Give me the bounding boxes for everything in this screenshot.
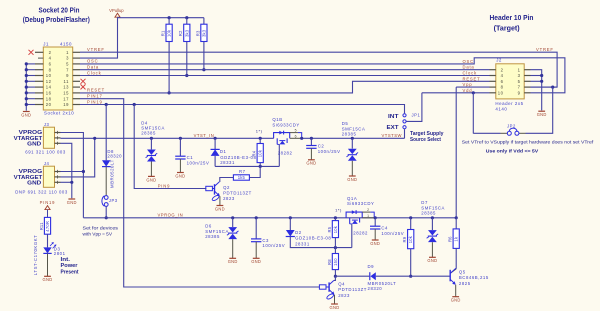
wire Vdd xyxy=(422,92,490,94)
ground GND C1 xyxy=(177,172,184,174)
wire C3 stem xyxy=(255,218,257,239)
resistor R2 3k3 xyxy=(186,18,188,25)
wire R3 to Data xyxy=(203,42,205,70)
wire J2 ground pins 1 3 5 xyxy=(531,70,542,111)
svg-text:J1: J1 xyxy=(43,41,49,46)
wire Q1B gate drop xyxy=(278,144,280,166)
svg-text:Data: Data xyxy=(87,65,99,70)
junction PIN19-PIN9 xyxy=(133,103,136,106)
wire GND J3.3 J4.3 xyxy=(61,143,72,198)
junction PIN19-D8 xyxy=(105,103,108,106)
svg-text:GND: GND xyxy=(215,206,225,211)
svg-text:11: 11 xyxy=(64,79,70,84)
svg-text:19: 19 xyxy=(63,102,69,107)
connector J1 Socket 2x10 xyxy=(43,47,72,110)
svg-text:J2: J2 xyxy=(496,58,502,63)
svg-text:Header 10 Pin: Header 10 Pin xyxy=(490,15,534,22)
svg-text:D1: D1 xyxy=(220,149,227,154)
wire PIN9 xyxy=(134,105,206,189)
wire RESET bus xyxy=(80,81,490,93)
svg-text:470R: 470R xyxy=(45,221,50,232)
no-connect X pin11 xyxy=(81,79,86,84)
junction D2-rail xyxy=(289,216,292,219)
capacitor C2 100n/25V xyxy=(306,145,316,147)
svg-text:8: 8 xyxy=(49,67,52,72)
junction Q1B drain xyxy=(300,137,303,140)
svg-text:GND: GND xyxy=(67,200,77,205)
svg-text:100n/25V: 100n/25V xyxy=(187,161,210,166)
wire D8 to JP3 xyxy=(105,167,107,196)
junction R9-rail xyxy=(409,216,412,219)
resistor R6 1k xyxy=(455,218,457,229)
svg-text:GND: GND xyxy=(451,298,461,303)
junction R2-Clock xyxy=(185,74,188,77)
svg-text:10: 10 xyxy=(498,90,504,95)
svg-text:1k5: 1k5 xyxy=(238,175,246,180)
svg-text:28385: 28385 xyxy=(421,211,436,216)
svg-text:5: 5 xyxy=(295,128,297,132)
svg-text:28385: 28385 xyxy=(141,130,156,135)
svg-text:R2: R2 xyxy=(178,30,183,36)
wire VTST_IN rail xyxy=(61,137,274,139)
svg-text:5: 5 xyxy=(66,62,69,67)
svg-text:OSC: OSC xyxy=(463,59,474,64)
svg-text:Socket 2x10: Socket 2x10 xyxy=(44,111,74,116)
svg-text:Si6933CDY: Si6933CDY xyxy=(347,201,374,206)
svg-text:28385: 28385 xyxy=(342,132,357,137)
svg-text:28331: 28331 xyxy=(295,241,310,246)
svg-text:9: 9 xyxy=(518,90,521,95)
ground GND D6 xyxy=(229,257,236,259)
svg-text:28282: 28282 xyxy=(278,150,293,155)
ground GND D4 xyxy=(148,175,155,177)
ground GND D7 xyxy=(429,256,436,258)
svg-text:100n/25V: 100n/25V xyxy=(318,149,341,154)
svg-text:JP2: JP2 xyxy=(507,124,516,129)
svg-text:GND: GND xyxy=(228,259,238,264)
svg-text:Q4: Q4 xyxy=(338,282,345,287)
svg-text:2: 2 xyxy=(501,67,504,72)
svg-text:28320: 28320 xyxy=(368,286,383,291)
svg-text:3k3: 3k3 xyxy=(184,29,189,37)
svg-text:C1: C1 xyxy=(187,155,194,160)
resistor R8 150 xyxy=(334,248,336,254)
junction D6-rail xyxy=(231,216,234,219)
wire gate node to R7 xyxy=(249,166,260,177)
svg-text:2801: 2801 xyxy=(54,251,66,256)
wire Q4 collector xyxy=(334,276,336,280)
svg-text:1k: 1k xyxy=(454,236,459,242)
junction D7-rail xyxy=(431,216,434,219)
svg-text:7: 7 xyxy=(518,85,521,90)
Q1B drain stubs pins 5 6 xyxy=(290,132,298,134)
wire JP1 middle to Vdd xyxy=(406,93,422,122)
svg-text:PDTD113ZT: PDTD113ZT xyxy=(338,287,367,292)
led D3 LTST-C170KGKT xyxy=(43,247,51,253)
suppressor D7 SMF15CA xyxy=(428,230,437,235)
wire J2 pin7 VTREF xyxy=(531,86,558,88)
junction J2 pin3 gnd xyxy=(540,74,543,77)
svg-text:R3: R3 xyxy=(195,30,200,36)
wire D1 stem xyxy=(214,138,216,149)
svg-text:R8: R8 xyxy=(327,259,332,265)
connector J2 Header 2x5 xyxy=(496,64,524,99)
svg-text:GND: GND xyxy=(306,161,316,166)
svg-text:GND: GND xyxy=(330,305,340,310)
capacitor C3 100n/25V xyxy=(251,238,261,240)
junction VTREF-JP2 xyxy=(551,86,554,89)
wire D9 to Q5 base xyxy=(376,275,450,277)
svg-text:Source Select: Source Select xyxy=(410,137,441,143)
wire VPROG_IN rail xyxy=(83,217,456,219)
J3 pin stubs xyxy=(55,132,61,134)
junctions J1 ground bus xyxy=(25,62,28,65)
svg-text:Vpp: Vpp xyxy=(463,82,473,87)
svg-text:18: 18 xyxy=(46,96,52,101)
capacitor C1 100n/25V xyxy=(175,155,185,157)
wire Data bus xyxy=(80,69,490,71)
svg-text:J3: J3 xyxy=(44,122,50,127)
wire VPullup riser to pin3 xyxy=(80,17,118,58)
svg-text:3: 3 xyxy=(66,56,69,61)
wire Vpp riser down to VPROG rail xyxy=(455,87,457,218)
svg-text:R9: R9 xyxy=(402,236,407,242)
wire C1 stem xyxy=(179,138,181,156)
ground GND D3 xyxy=(44,275,51,277)
wire C2 stem xyxy=(310,138,312,145)
wire VPROG from J3.1 J4.1 xyxy=(61,133,84,218)
junction R9 base node xyxy=(409,275,412,278)
svg-text:2: 2 xyxy=(49,50,52,55)
svg-text:GND: GND xyxy=(27,142,41,148)
wire D6 to gnd xyxy=(232,239,234,258)
svg-text:Q2: Q2 xyxy=(223,185,230,190)
suppressor D6 SMF15CA xyxy=(228,227,237,232)
wire OSC bus xyxy=(80,58,565,93)
svg-text:Present: Present xyxy=(61,269,79,275)
junction VPullup-R2 xyxy=(185,16,188,19)
svg-text:GND: GND xyxy=(175,173,185,178)
svg-text:Vdd: Vdd xyxy=(463,88,473,93)
junction D4-rail xyxy=(150,137,153,140)
ground GND Q5 xyxy=(452,296,459,298)
junction R5 R8 gate node A xyxy=(334,246,337,249)
svg-text:BC846B,215: BC846B,215 xyxy=(459,275,489,280)
svg-text:EXT: EXT xyxy=(387,125,400,131)
wire Clock bus xyxy=(80,75,490,77)
svg-text:LTST-C170KGKT: LTST-C170KGKT xyxy=(33,235,38,276)
wire PIN19 to D8 xyxy=(105,105,107,161)
svg-text:15: 15 xyxy=(63,91,69,96)
wire C2 to gnd xyxy=(310,148,312,160)
svg-text:GND: GND xyxy=(427,258,437,263)
wire R7 to Q2 collector xyxy=(220,178,234,183)
svg-text:Int.: Int. xyxy=(61,257,71,263)
wire D1 to gate node B xyxy=(214,156,216,167)
junction VPROG J4.1 xyxy=(82,170,85,173)
svg-text:1: 1 xyxy=(66,50,69,55)
svg-text:VTREF: VTREF xyxy=(87,47,105,52)
svg-text:13: 13 xyxy=(63,85,69,90)
suppressor D4 SMF15CA xyxy=(147,150,156,155)
svg-text:Q5: Q5 xyxy=(459,270,466,275)
svg-text:J4: J4 xyxy=(44,161,50,166)
junction R4 gate node xyxy=(259,165,262,168)
svg-text:7: 7 xyxy=(66,67,69,72)
resistor R3 3k3 xyxy=(203,18,205,25)
svg-text:Set for devices: Set for devices xyxy=(83,226,119,231)
J2 right pin stubs xyxy=(524,69,530,71)
wire Vdd drop to JP2 xyxy=(472,93,474,134)
svg-text:16: 16 xyxy=(46,91,52,96)
no-connect X pin13 xyxy=(81,84,86,89)
zener D2 GDZ10B xyxy=(286,230,295,237)
wire R1 to RESET xyxy=(168,42,170,93)
svg-text:5: 5 xyxy=(518,79,521,84)
svg-text:1*): 1*) xyxy=(256,129,263,134)
wire D5 stem xyxy=(351,138,353,148)
svg-text:28331: 28331 xyxy=(220,160,235,165)
svg-text:DNP 691 322 110 003: DNP 691 322 110 003 xyxy=(15,189,68,194)
wire D4 stem xyxy=(150,138,152,149)
svg-text:RESET: RESET xyxy=(87,88,105,93)
svg-text:10k: 10k xyxy=(408,235,413,243)
svg-text:150: 150 xyxy=(333,258,338,266)
svg-text:R6: R6 xyxy=(448,236,453,242)
wire D6 stem xyxy=(232,218,234,227)
svg-text:VTSTSW: VTSTSW xyxy=(382,133,402,138)
svg-text:10k: 10k xyxy=(258,149,263,157)
svg-text:D9: D9 xyxy=(368,264,375,269)
svg-text:VPullup: VPullup xyxy=(109,8,124,13)
svg-text:GND: GND xyxy=(43,277,53,282)
suppressor D5 SMF15CA xyxy=(348,149,357,154)
wire D7 stem xyxy=(431,218,433,230)
svg-text:D2: D2 xyxy=(295,230,302,235)
junction R4-rail xyxy=(259,137,262,140)
svg-text:4150: 4150 xyxy=(60,41,72,46)
svg-text:10k: 10k xyxy=(333,225,338,233)
wire D2 stem xyxy=(289,218,291,230)
svg-text:VPROG_IN: VPROG_IN xyxy=(158,213,184,218)
svg-text:3: 3 xyxy=(518,73,521,78)
ground GND C2 xyxy=(308,159,315,161)
svg-text:6: 6 xyxy=(295,134,297,138)
resistor R11 470R xyxy=(44,217,50,234)
svg-text:Header 2x5: Header 2x5 xyxy=(495,101,523,106)
wire D5 to gnd xyxy=(351,161,353,176)
svg-text:R5: R5 xyxy=(327,226,332,232)
J1 right pin stubs xyxy=(73,51,80,53)
wire Vpp xyxy=(456,86,489,88)
svg-text:1: 1 xyxy=(518,67,521,72)
svg-text:2823: 2823 xyxy=(223,196,235,201)
svg-text:VTREF: VTREF xyxy=(536,47,554,52)
wire J1 pin4 stub xyxy=(38,57,43,59)
wire JP1 EXT to VTSTSW xyxy=(404,129,406,138)
resistor R5 10k xyxy=(334,218,336,221)
wire JP2 right xyxy=(519,132,526,134)
svg-text:R11: R11 xyxy=(39,222,44,230)
wire VTARGET from J4.2 xyxy=(61,138,95,177)
resistor R9 10k xyxy=(410,218,412,230)
wire J1 left ground bus xyxy=(25,64,27,111)
svg-text:with Vpp = 5V: with Vpp = 5V xyxy=(83,232,113,237)
wire R2 to Clock xyxy=(186,42,188,76)
wire Q1A gate drop xyxy=(351,224,353,248)
wire D2 to gate node A xyxy=(290,237,352,248)
svg-text:VTST_IN: VTST_IN xyxy=(194,133,215,138)
diode D8 MBR0520LT xyxy=(102,160,110,166)
wire Q4 emitter to gnd xyxy=(334,295,336,304)
wire Q4 node to D9 xyxy=(335,275,369,277)
zener D1 GDZ10B xyxy=(211,149,220,156)
junction R3-Data xyxy=(202,68,205,71)
svg-text:28320: 28320 xyxy=(107,154,122,159)
wire R11 to D3 xyxy=(47,234,49,247)
svg-text:(Target): (Target) xyxy=(494,26,520,33)
junction VTARGET rail xyxy=(93,137,96,140)
wire R6 to Q5 collector xyxy=(455,248,457,268)
svg-text:10k: 10k xyxy=(167,29,172,37)
wire PIN19 bus xyxy=(80,105,405,114)
svg-text:OSC: OSC xyxy=(87,59,98,64)
svg-text:28385: 28385 xyxy=(205,234,220,239)
wire Q2 emitter to gnd xyxy=(219,196,221,205)
ground GND D5 xyxy=(349,175,356,177)
wire gate node B xyxy=(215,165,279,167)
svg-text:GND: GND xyxy=(251,259,261,264)
svg-text:R1: R1 xyxy=(161,30,166,36)
junction C2-rail xyxy=(310,137,313,140)
svg-text:4: 4 xyxy=(49,56,52,61)
svg-text:12: 12 xyxy=(46,79,52,84)
svg-text:GND: GND xyxy=(537,112,547,117)
svg-text:R4: R4 xyxy=(252,150,257,156)
no-connect X pin2 xyxy=(29,50,34,55)
transistor Q5 BC846B xyxy=(449,275,451,277)
wire Q5 emitter to gnd xyxy=(455,285,457,297)
wire D4 to gnd xyxy=(150,162,152,177)
ground GND Q4 xyxy=(331,303,338,305)
wire C3 to gnd xyxy=(255,242,257,259)
svg-text:GND: GND xyxy=(27,181,41,187)
connector J3 xyxy=(43,127,54,148)
wire C1 to gnd xyxy=(179,159,181,173)
svg-text:C3: C3 xyxy=(262,238,269,243)
svg-text:9: 9 xyxy=(66,73,69,78)
J2 left pin stubs xyxy=(490,69,496,71)
svg-text:28282: 28282 xyxy=(353,231,368,236)
supply arrow PIN19 xyxy=(45,206,50,210)
ground GND J1 bus xyxy=(23,111,30,113)
svg-text:20: 20 xyxy=(46,102,52,107)
wire C4 to gnd xyxy=(374,229,376,240)
svg-text:GND: GND xyxy=(21,112,31,117)
svg-text:6: 6 xyxy=(49,62,52,67)
svg-text:PIN19: PIN19 xyxy=(87,99,103,104)
svg-text:691 321 100 003: 691 321 100 003 xyxy=(25,150,66,155)
resistor R4 10k gate pullup xyxy=(259,138,261,143)
junction C1-rail xyxy=(179,137,182,140)
svg-text:3k3: 3k3 xyxy=(201,29,206,37)
svg-text:Si6933CDY: Si6933CDY xyxy=(272,122,299,127)
jumper JP3 xyxy=(104,196,108,200)
svg-text:INT: INT xyxy=(388,114,399,120)
svg-text:Set VTref to VSupply if target: Set VTref to VSupply if target hardware … xyxy=(462,140,594,145)
svg-text:RESET: RESET xyxy=(463,76,481,81)
jumper JP2 xyxy=(507,131,511,135)
ground GND J3 J4 xyxy=(68,198,75,200)
resistor R1 10k xyxy=(168,18,170,25)
junction J2 pin5 gnd xyxy=(540,80,543,83)
ground GND Q2 xyxy=(217,205,224,207)
svg-text:Clock: Clock xyxy=(463,71,478,76)
wire PIN17 bus xyxy=(80,99,319,287)
ground GND C3 xyxy=(253,257,260,259)
junction VPullup-R1 xyxy=(168,16,171,19)
svg-text:4140: 4140 xyxy=(495,106,507,111)
transistor Q2 PDTD113ZT xyxy=(206,186,213,190)
svg-text:PIN19: PIN19 xyxy=(40,200,56,205)
wire VTSTSW rail xyxy=(302,137,405,139)
svg-text:GND: GND xyxy=(370,241,380,246)
svg-text:1: 1 xyxy=(367,214,369,218)
wire JP3 to VPROG rail xyxy=(105,207,107,218)
svg-text:Clock: Clock xyxy=(87,70,102,75)
wire C4 stem xyxy=(374,218,376,226)
svg-text:8: 8 xyxy=(501,85,504,90)
junction D5-rail xyxy=(351,137,354,140)
wire D3 to gnd xyxy=(47,253,49,276)
svg-text:100n/25V: 100n/25V xyxy=(262,243,285,248)
svg-text:2825: 2825 xyxy=(459,281,471,286)
junction GND J4.3 xyxy=(70,181,73,184)
svg-text:Socket 20 Pin: Socket 20 Pin xyxy=(39,7,80,14)
capacitor C4 100n/25V xyxy=(370,225,380,227)
J1 left pin stubs xyxy=(35,51,43,53)
svg-text:100n/25V: 100n/25V xyxy=(381,231,404,236)
svg-text:6: 6 xyxy=(501,79,504,84)
svg-text:GND: GND xyxy=(347,177,357,182)
wire VPullup horizontal xyxy=(118,17,204,19)
svg-text:Power: Power xyxy=(61,263,78,269)
junction R8 Q4 D9 node xyxy=(334,275,337,278)
svg-text:2823: 2823 xyxy=(338,293,350,298)
wire VTREF bus xyxy=(80,52,557,87)
svg-text:R7: R7 xyxy=(239,169,246,174)
connector J4 xyxy=(43,166,54,187)
junction C4-rail xyxy=(374,216,377,219)
svg-text:GND: GND xyxy=(146,177,156,182)
svg-text:PDTD113ZT: PDTD113ZT xyxy=(223,191,252,196)
diode D9 MBR0520LT xyxy=(369,272,371,280)
ground GND C4 xyxy=(372,239,379,241)
svg-text:Data: Data xyxy=(463,65,475,70)
junction R5-rail xyxy=(334,216,337,219)
svg-text:PIN17: PIN17 xyxy=(87,94,103,99)
junction R1-RESET xyxy=(168,91,171,94)
svg-text:17: 17 xyxy=(63,96,69,101)
jumper JP1 xyxy=(403,114,406,117)
svg-text:(Debug Probe/Flasher): (Debug Probe/Flasher) xyxy=(23,17,90,24)
wire JP2 left xyxy=(473,132,500,134)
svg-text:PIN9: PIN9 xyxy=(158,183,171,188)
junction Vpp rail R6 xyxy=(455,216,458,219)
ground GND J2 xyxy=(538,110,545,112)
svg-text:1*): 1*) xyxy=(335,208,342,213)
wire D7 to gnd xyxy=(431,242,433,257)
